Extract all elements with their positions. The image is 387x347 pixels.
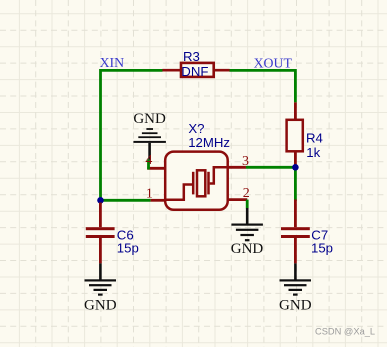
svg-text:DNF: DNF [181, 64, 208, 79]
crystal pin 2 [228, 198, 248, 201]
svg-text:GND: GND [133, 111, 166, 127]
ground top (pin4 GND) [133, 111, 166, 160]
svg-text:XOUT: XOUT [254, 55, 293, 70]
svg-text:4: 4 [145, 153, 152, 168]
svg-text:12MHz: 12MHz [188, 135, 230, 150]
ground mid (pin2 GND) [231, 208, 264, 257]
svg-text:CSDN @Xa_L: CSDN @Xa_L [315, 326, 375, 336]
crystal X? body [165, 152, 228, 210]
capacitor C7 [281, 200, 310, 264]
node junction left [97, 197, 104, 204]
wire pin1 from left rail [101, 199, 151, 202]
svg-text:2: 2 [243, 186, 250, 201]
wire right rail junction down [294, 167, 297, 201]
svg-text:R3: R3 [183, 49, 200, 64]
ground bottom-left [84, 263, 117, 313]
svg-text:X?: X? [188, 121, 204, 136]
svg-text:XIN: XIN [100, 55, 125, 70]
wire XOUT net (top-right L) [229, 70, 295, 102]
wire XIN net (top-left L) [101, 70, 163, 203]
wire pin4 GND stub [147, 159, 150, 169]
svg-text:1: 1 [146, 186, 153, 201]
node junction right [292, 164, 299, 171]
crystal pin 1 [151, 199, 166, 202]
svg-text:1k: 1k [306, 145, 320, 160]
crystal pin 4 [147, 167, 165, 170]
svg-text:R4: R4 [306, 130, 323, 145]
capacitor C6 [86, 203, 115, 264]
wire pin2 GND stub [246, 200, 249, 209]
svg-text:15p: 15p [311, 240, 333, 255]
crystal pin 3 [228, 166, 246, 169]
svg-text:GND: GND [279, 298, 312, 314]
svg-text:GND: GND [231, 241, 264, 257]
resistor R4 [287, 102, 303, 167]
svg-text:GND: GND [84, 298, 117, 314]
wire pin3 to right rail [246, 166, 296, 169]
svg-text:15p: 15p [117, 240, 139, 255]
ground bottom-right [279, 263, 312, 313]
svg-text:3: 3 [242, 154, 249, 169]
resistor R3 [162, 63, 229, 77]
